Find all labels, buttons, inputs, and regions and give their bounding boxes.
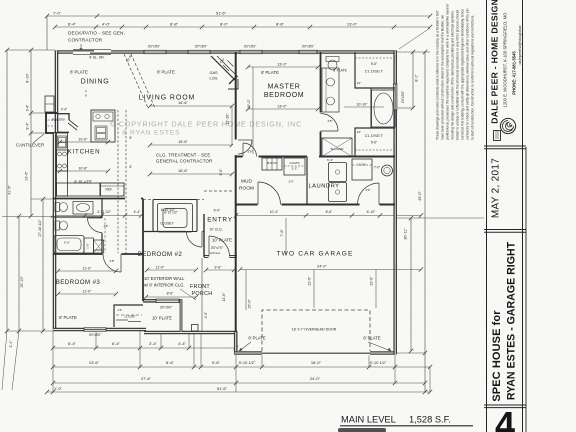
bedroom3 south window [84,327,106,332]
fireplace corner unit [211,56,236,81]
hall north wall [53,198,143,200]
bath door opening [318,113,323,132]
west wall upper [55,51,59,134]
left extension line y50 [7,49,55,51]
pantry walls [57,113,69,115]
dimension row 2 line [55,26,430,28]
bathB door [88,217,103,219]
bathB toilet [55,221,60,230]
bathB tub [54,236,84,254]
suite hall opening [307,154,319,159]
garage north wall [236,204,395,206]
bedroom3 north wall [53,253,143,255]
porch post [192,325,199,332]
kitchen bottom counter [57,183,101,196]
bedroom2 closet south wall [143,231,204,233]
left extension line y199 [31,198,53,200]
master bath west wall [320,52,322,157]
kitchen soffit dashed [117,110,119,253]
bedroom2 front window [156,298,179,303]
bathB door opening [100,218,105,233]
master bath window [299,49,317,54]
logo spiral [500,118,515,133]
bottom dim row D [47,391,430,393]
kitchen island [91,110,115,142]
pantry door [69,120,78,127]
master closet top walls [355,52,395,88]
left dim line 15'-10 [18,216,20,331]
section line 3 [484,404,526,406]
deck note leader arrow [80,44,82,52]
dining/living ceiling break [124,54,148,108]
bottom dim row B [53,366,430,368]
west wall lower [53,133,57,330]
master bath door [321,130,339,132]
master window [240,49,262,54]
kitchen left counter [57,133,68,196]
left extension line y331 [7,330,53,332]
island cooktop [93,112,113,121]
mud built-in [262,158,282,170]
bedroom2 walk-in closet box [153,200,197,232]
kitchen sink left [58,136,67,148]
coats closet [284,158,305,175]
mudroom door opening [258,202,282,207]
bath east wall [101,199,103,255]
east wall window [393,84,398,110]
central wall living/garage [235,52,237,332]
living-mud door opening [233,140,238,156]
right extension y52 [397,51,430,53]
north exterior wall [55,50,397,54]
bedroom2 east wall [142,199,144,302]
mudroom door [257,182,259,205]
left extension line y216 [2,216,53,218]
left extension line y113 [31,112,46,114]
master toilet [326,57,339,62]
hall ceiling dashed [204,190,233,192]
bedroom3 closet walls [114,305,143,327]
cantilever leader [33,134,44,143]
porch front edge [144,331,237,335]
laundry west wall [306,157,308,205]
entry front door [208,236,210,257]
laundry closet [352,159,372,180]
master tub [372,90,396,127]
living-mud door [238,139,252,141]
titleblock left border [486,0,488,432]
left dim line 8'-10/9'-4/13'-6 [30,50,32,216]
left dim line 41'-5 [6,50,8,331]
section line 1 [484,145,526,147]
titleblock right border 2 [525,147,527,432]
right extension y108 [397,107,413,109]
bottom dim row C [53,382,425,384]
bottom extension lines [52,331,54,392]
note leader [180,289,196,300]
entry west wall [203,214,205,257]
bathA vanity [73,202,93,215]
section line 2 [484,229,526,231]
right dim line 45'-0 [424,52,426,392]
water heater [382,165,393,176]
porch-garage jog wall [234,331,238,355]
scale smudge [338,428,386,432]
living window 2 [188,49,210,54]
garage dim line 36'-11 [410,218,412,351]
porch edge line [201,258,203,331]
bedroom2 front wall [143,299,182,303]
bedroom2 door opening [186,229,203,234]
left extension line y133 [31,132,46,134]
bedroom3 door opening [103,252,122,257]
master shower [322,138,352,157]
garage front wall [235,351,396,355]
dining sliding door [73,50,111,55]
south wall bedroom3 [53,328,146,332]
bathA toilet [55,203,60,212]
dining built-in [45,96,54,112]
linen closet [94,240,104,253]
porch west side wall [180,300,183,333]
right extension y353 [397,352,425,354]
hall ceiling dashed 2 [143,198,153,200]
bath divider wall [53,216,102,218]
bedroom2 door [201,232,203,248]
entry front wall [204,255,237,258]
bedroom3 closet doors [116,319,128,321]
scan noise overlay [0,0,1,1]
master closet bottom walls [355,128,395,157]
garage door opening [262,351,370,356]
washer [329,163,347,182]
pantry shelves [48,119,57,121]
master bedroom door [242,143,244,157]
master suite south wall [236,156,395,158]
living window 1 [144,49,166,54]
bathB cabinet [84,238,94,253]
bedroom3 closet rod [116,314,142,316]
master closet top shelves [355,57,395,59]
refrigerator [100,183,124,196]
left dim line 27'-10 [42,199,44,331]
laundry door opening [360,202,380,207]
titleblock right border [522,0,524,432]
east exterior wall [393,51,397,355]
bottom-left diagonal extension [2,331,7,390]
island sink [95,126,107,140]
overhead door dashed outline [262,310,370,351]
entry door opening [209,254,230,259]
master door opening [243,154,259,159]
right extension y218 [397,217,484,219]
dimension row 1 line (7'-0 / 51'-6) [47,15,430,17]
laundry garage door [378,183,380,205]
bottom dim row A [53,347,236,349]
dryer [329,183,347,202]
bedroom3 door [120,254,122,272]
interior dim row y215 [53,215,141,217]
bath tub nook wall [370,88,372,128]
master vanity [322,68,339,112]
main level underline [340,425,473,427]
right dim line 8'-1 [412,52,414,108]
hall opening from kitchen [125,196,141,201]
pantry cantilever bump [46,113,57,133]
kitchen range [57,150,68,171]
master closet bottom [355,149,395,151]
